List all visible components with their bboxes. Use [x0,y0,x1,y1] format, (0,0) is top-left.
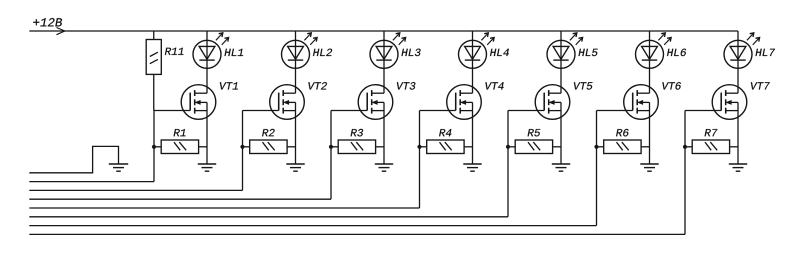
wire: +12V rail to HL2 anode / VT2 drain [295,31,297,93]
LED HL6 [636,33,687,68]
LED HL3 [370,33,421,68]
ground (VT1 source) [198,164,216,171]
wire: +12V rail to HL3 anode / VT3 drain [383,31,385,93]
wire: input bus line 7 [29,233,685,235]
wire: gate column / input node of stage 3 [330,111,332,200]
wire: +12V power rail [29,30,738,32]
ground (VT7 source) [729,164,747,171]
wire: +12V rail to HL6 anode / VT6 drain [649,31,651,93]
wire: VT2 body/source to ground [295,102,297,164]
wire: gate lead of VT4 [420,110,456,112]
ground (VT6 source) [640,164,658,171]
node: junction dot at R7 input [683,145,687,149]
wire: gate column / input node of stage 1 [153,111,155,182]
resistor R4 [420,129,473,153]
ground (VT3 source) [375,164,393,171]
wire: VT5 body/source to ground [560,102,562,164]
node: junction dot at R4 input [417,145,421,149]
wire: VT1 body/source to ground [206,102,208,164]
transistor VT5 (n-channel MOSFET) [535,82,592,119]
wire: VT4 body/source to ground [472,102,474,164]
wire: input bus line 1 [29,181,154,183]
wire: gate column / input node of stage 6 [596,111,598,226]
wire: +12V rail to HL5 anode / VT5 drain [560,31,562,93]
transistor VT1 (n-channel MOSFET) [181,82,238,119]
wire: gate column / input node of stage 7 [684,111,686,235]
wire: input bus line 2 [29,189,242,191]
net label +12V [33,18,62,26]
wire: gate lead of VT5 [508,110,544,112]
wire: +12V rail to HL1 anode / VT1 drain [206,31,208,93]
wire: input bus line 3 [29,198,331,200]
wire: gate lead of VT1 [154,110,190,112]
ground (VT2 source) [286,164,304,171]
LED HL2 [282,33,333,68]
resistor R3 [331,129,384,154]
wire: VT6 body/source to ground [649,102,651,164]
node: junction dot at R1 input [152,145,156,149]
wire: input bus line 6 [29,225,596,227]
transistor VT4 (n-channel MOSFET) [447,82,504,119]
transistor VT2 (n-channel MOSFET) [270,82,327,119]
wire: VT7 body/source to ground [737,102,739,164]
wire: input bus line 5 [29,216,508,218]
node: junction dot at R5 input [506,145,510,149]
ground (common, left) [109,164,128,171]
wire: gate lead of VT3 [331,110,367,112]
wire: gate column / input node of stage 4 [419,111,421,209]
wire: +12V rail to HL7 anode / VT7 drain [737,31,739,93]
wire: gate lead of VT2 [243,110,279,112]
LED HL5 [547,33,598,68]
wire: +12V rail to HL4 anode / VT4 drain [472,31,474,93]
node: junction dot at R3 input [329,145,333,149]
wire: gate column / input node of stage 5 [507,111,509,217]
wire: common ground bus (stepped) [29,146,118,172]
node: junction dot at R2 input [240,145,244,149]
resistor R7 [685,129,738,153]
wire: VT3 body/source to ground [383,102,385,164]
wire: input bus line 4 [29,207,419,209]
resistor R6 [597,129,650,154]
ground (VT5 source) [552,164,570,171]
resistor R5 [508,129,561,153]
transistor VT6 (n-channel MOSFET) [624,82,681,119]
wire: gate column / input node of stage 2 [242,111,244,191]
transistor VT3 (n-channel MOSFET) [358,82,415,119]
LED HL1 [193,33,243,68]
resistor R2 [243,129,296,154]
LED HL4 [459,33,509,68]
arrow on +12V rail [57,28,65,35]
LED HL7 [724,33,775,68]
ground (VT4 source) [463,164,481,171]
resistor R11 [146,31,183,111]
resistor R1 [154,129,207,153]
wire: gate lead of VT6 [597,110,633,112]
wire: gate lead of VT7 [685,110,721,112]
transistor VT7 (n-channel MOSFET) [712,82,770,119]
node: junction dot at R6 input [594,145,598,149]
